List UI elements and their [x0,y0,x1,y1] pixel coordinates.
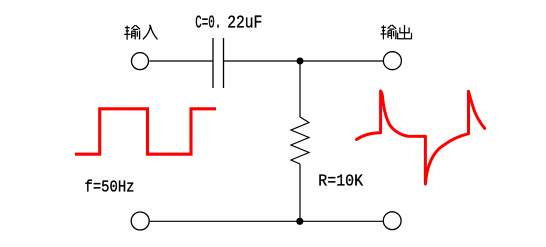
capacitor C=0.22uF [213,38,224,88]
wire junction down to resistor [299,61,301,117]
node top junction [297,58,304,65]
svg-text:f=50Hz: f=50Hz [85,178,135,197]
svg-text:C=0.: C=0. [195,14,221,34]
terminal bottom-left circle [131,212,149,230]
label 输入 (input) [124,25,140,40]
wire input to capacitor [149,60,212,62]
input waveform: red square wave [75,109,216,154]
label 输出 (output) [381,25,397,40]
terminal output (top-right circle) [383,52,401,70]
svg-text:22uF: 22uF [227,14,262,34]
resistor R1 zigzag [291,117,309,164]
output waveform: red differentiated spikes [357,91,485,184]
wire bottom rail [150,220,383,222]
wire capacitor to output [224,60,383,62]
terminal bottom-right circle [383,212,401,230]
terminal input (top-left circle) [132,53,149,70]
svg-text:R=10K: R=10K [318,172,363,191]
wire resistor to bottom junction [299,164,301,221]
node bottom junction [296,218,303,225]
